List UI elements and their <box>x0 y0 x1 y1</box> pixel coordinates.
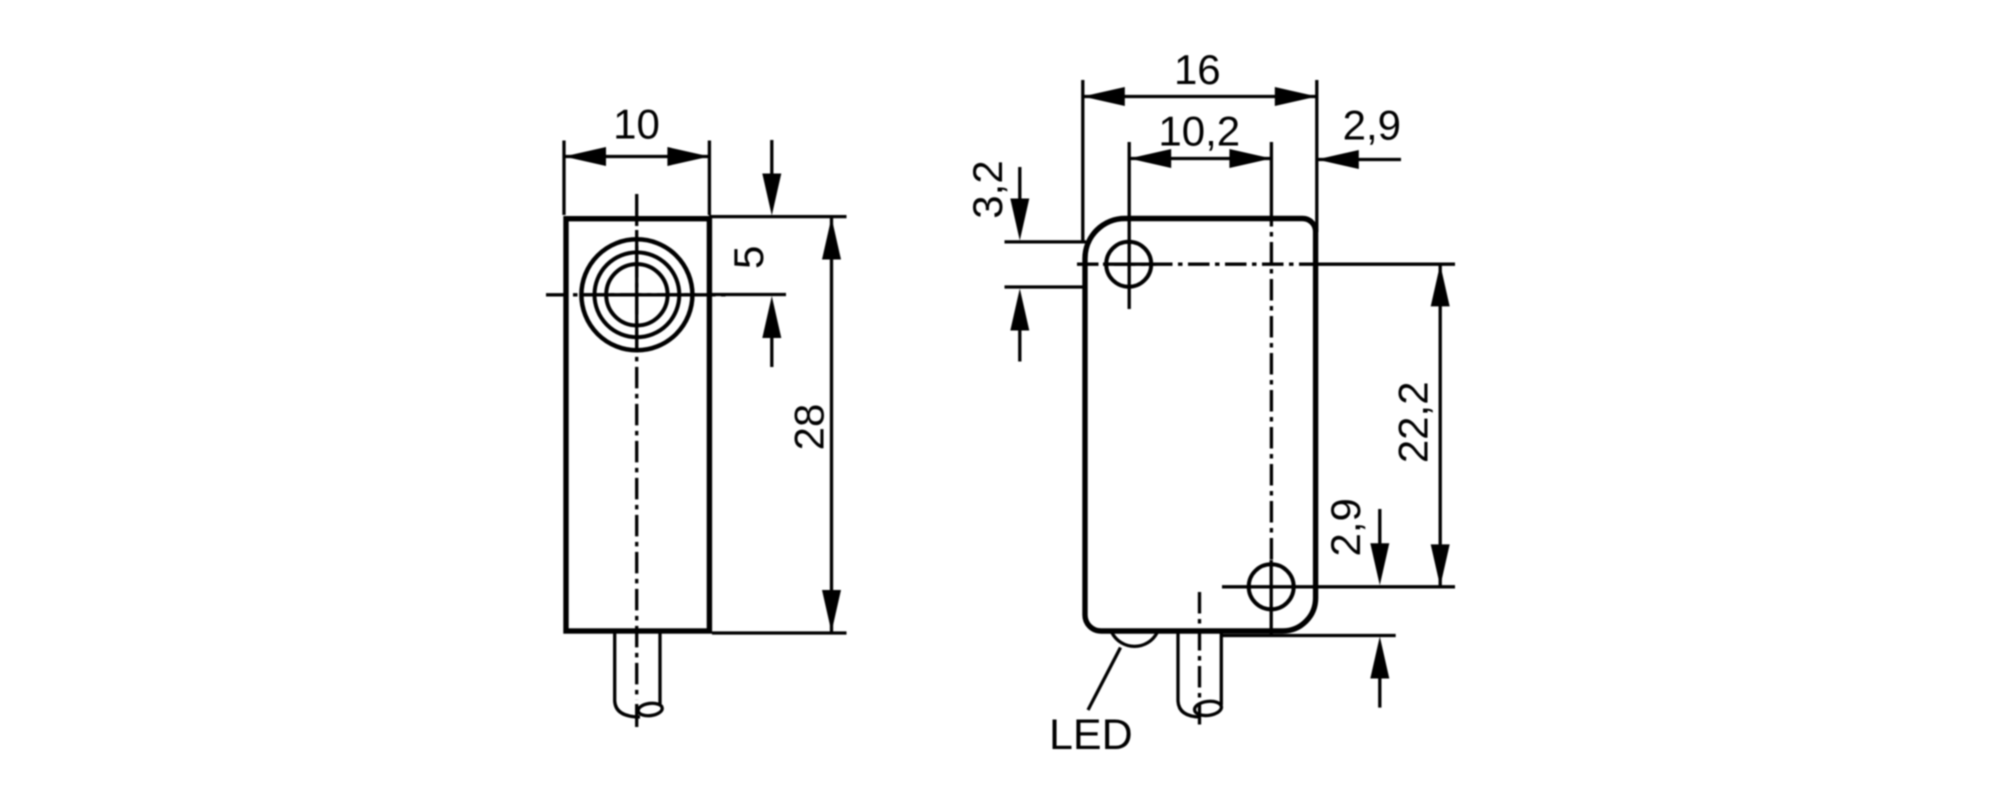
right view bottom hole crosshair vertical <box>1270 560 1273 634</box>
left view centerline bottom tick <box>635 704 638 727</box>
dim 10 arrow left <box>564 147 606 166</box>
dim 5 upper arrow shaft <box>770 140 773 176</box>
dim 5 upper arrow head <box>762 174 781 216</box>
dim 22,2 top arrow <box>1431 264 1450 306</box>
dim 3,2 upper arrow head <box>1010 199 1029 241</box>
left view cable end ellipse <box>637 702 663 717</box>
dim 2,9 bottom lower arrow shaft <box>1378 676 1381 708</box>
svg-text:10: 10 <box>613 101 660 148</box>
dim 10 left extension line <box>562 141 565 216</box>
right view bottom hole crosshair horizontal <box>1222 585 1310 588</box>
dim 10 dimension line <box>564 155 709 158</box>
right view cable centerline dash-dot <box>1198 592 1201 727</box>
dim 10,2 left extension line through top hole <box>1128 142 1131 309</box>
LED leader line <box>1088 648 1121 711</box>
dim 22,2 bottom arrow <box>1431 544 1450 586</box>
left view sensing face circle inner <box>606 264 667 325</box>
svg-text:22,2: 22,2 <box>1390 381 1437 463</box>
dim 28 bottom arrow <box>822 590 841 632</box>
right view bottom hole centerline dash-dot <box>1270 205 1273 562</box>
left view bottom face extension line <box>712 631 847 634</box>
dim 5 extension line at circle center <box>709 293 786 296</box>
right view top hole centerline dash-dot to right <box>1077 263 1316 266</box>
left view crosshair vertical solid through circle <box>635 240 638 350</box>
dim 3,2 lower arrow head <box>1010 289 1029 331</box>
left view vertical centerline top tick <box>635 194 638 226</box>
dim 28 dimension line <box>830 218 833 633</box>
dim 16 dimension line <box>1083 95 1317 98</box>
LED bump <box>1112 633 1157 647</box>
right view top hole crosshair horizontal <box>1103 263 1156 266</box>
right view cable left line <box>1178 633 1201 717</box>
left view crosshair horizontal solid through circle <box>580 293 696 296</box>
left view sensing face circle outer <box>581 239 692 350</box>
dim 10,2 right extension line upper solid <box>1270 142 1273 205</box>
left view vertical centerline dash-dot <box>635 230 638 700</box>
dim 16 arrow left <box>1083 87 1125 106</box>
dim 3,2 upper tangent line <box>1005 240 1087 243</box>
dim 3,2 lower arrow shaft <box>1018 328 1021 362</box>
dim 5 lower arrow head <box>762 296 781 338</box>
right view body outline <box>1085 219 1316 632</box>
left view top face extension line <box>709 215 847 218</box>
left view cable left line <box>615 633 640 717</box>
dim 10,2 arrow right <box>1229 149 1271 168</box>
dim 2,9 top leader line <box>1317 158 1401 161</box>
left view cable right line <box>658 633 661 705</box>
left view horizontal centerline dash-dot <box>546 293 730 296</box>
right view cable end ellipse <box>1194 700 1223 717</box>
right view bottom mounting hole <box>1249 564 1294 609</box>
dim 2,9 bottom upper arrow shaft <box>1378 509 1381 546</box>
right view cable right line <box>1220 633 1223 705</box>
svg-text:28: 28 <box>786 404 833 451</box>
dim 2,9 bottom lower arrow head <box>1370 637 1389 679</box>
right view bottom face extension line <box>1221 634 1396 637</box>
svg-text:2,9: 2,9 <box>1343 102 1401 149</box>
svg-text:2,9: 2,9 <box>1322 498 1369 556</box>
left view body outline <box>566 219 709 631</box>
dim 2,9 bottom upper arrow head <box>1370 543 1389 585</box>
svg-text:LED: LED <box>1049 711 1133 759</box>
left view sensing face circle middle <box>595 252 680 337</box>
svg-text:5: 5 <box>725 246 772 269</box>
dim 16 right extension line <box>1315 80 1318 232</box>
right view top mounting hole <box>1106 242 1151 287</box>
svg-text:10,2: 10,2 <box>1158 108 1240 155</box>
dim 22,2 top extension line <box>1316 263 1455 266</box>
dim 22,2 dimension line <box>1439 264 1442 586</box>
dim 10 arrow right <box>667 147 709 166</box>
dim 10,2 dimension line <box>1129 157 1271 160</box>
dim 10 right extension line <box>708 141 711 216</box>
dim 22,2 bottom extension line <box>1310 585 1455 588</box>
dim 2,9 top arrow <box>1317 150 1359 169</box>
dim 5 lower arrow shaft <box>770 336 773 367</box>
svg-text:16: 16 <box>1174 46 1221 93</box>
dim 28 top arrow <box>822 218 841 260</box>
dim 16 left extension line <box>1081 80 1084 243</box>
svg-text:3,2: 3,2 <box>964 160 1011 218</box>
dim 10,2 arrow left <box>1129 149 1171 168</box>
dim 16 arrow right <box>1275 87 1317 106</box>
dim 3,2 upper arrow shaft <box>1018 167 1021 202</box>
dim 3,2 lower tangent line <box>1005 285 1087 288</box>
